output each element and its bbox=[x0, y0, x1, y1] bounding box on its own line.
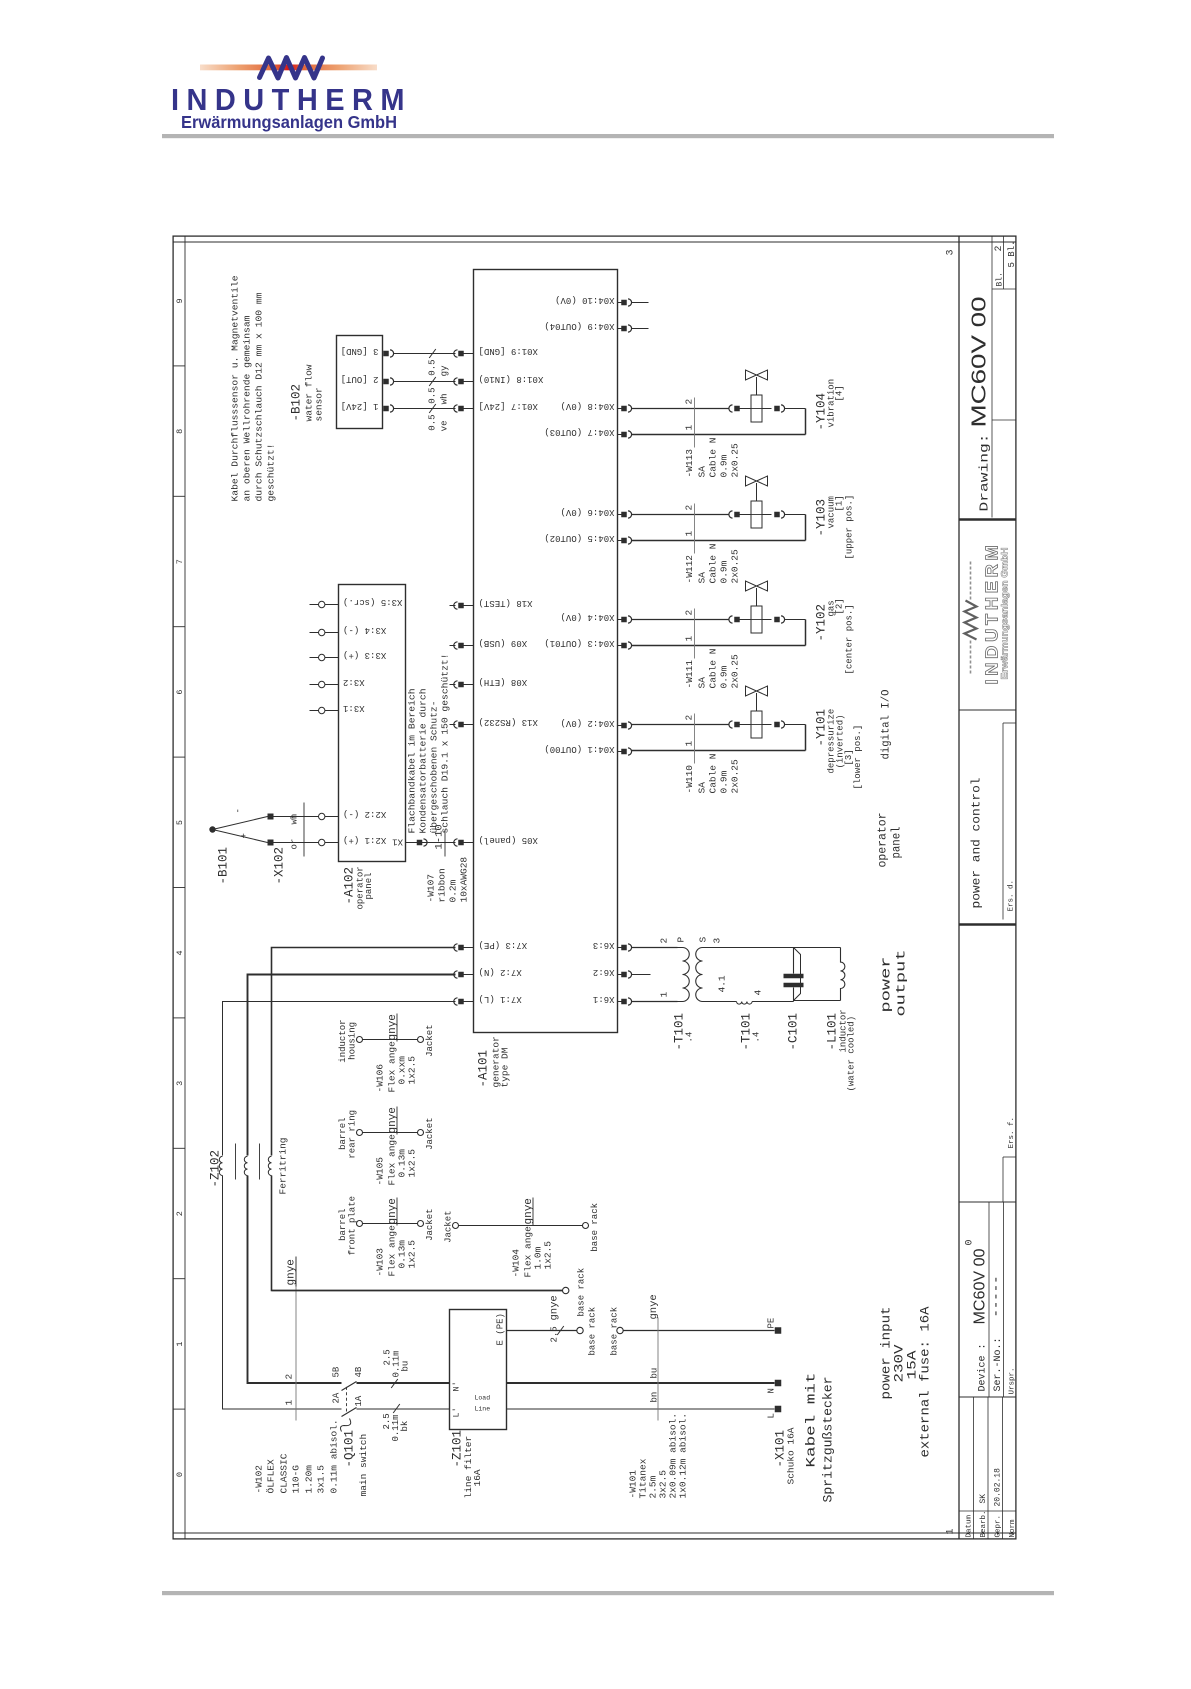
svg-text:-W112: -W112 bbox=[684, 555, 695, 584]
bottom gray rule bbox=[162, 1591, 1054, 1595]
svg-text:durch Schutzschlauch D12 mm x: durch Schutzschlauch D12 mm x 100 mm bbox=[254, 292, 265, 501]
svg-text:Ferritring: Ferritring bbox=[278, 1137, 289, 1194]
svg-text:barrel: barrel bbox=[338, 1208, 348, 1240]
wire X04 0V to valve -Y102 bbox=[632, 619, 729, 621]
drawing cell vertical 2 bbox=[992, 288, 1017, 290]
svg-text:Erwärmungsanlagen GmbH: Erwärmungsanlagen GmbH bbox=[1000, 548, 1010, 680]
svg-text:X04:7 (OUT03): X04:7 (OUT03) bbox=[544, 427, 614, 437]
main switch Q101 contact L bbox=[342, 1408, 357, 1417]
svg-text:+: + bbox=[240, 833, 250, 838]
plug X101 terminal L bbox=[775, 1406, 782, 1413]
svg-text:X04:10 (0V): X04:10 (0V) bbox=[555, 295, 614, 305]
A102 pin X3:4 (-) bbox=[310, 632, 319, 634]
A101 pin X6:1 bbox=[618, 1001, 622, 1003]
frame inner line left bbox=[173, 1532, 1017, 1534]
svg-text:X3:4 (-): X3:4 (-) bbox=[343, 625, 386, 635]
wire secondary right down bbox=[708, 947, 794, 949]
wire B102 to A101 at 1131 bbox=[394, 408, 456, 410]
solenoid coil -Y101 bbox=[751, 711, 762, 738]
A101 pin X04:4 (0V) bbox=[618, 619, 622, 621]
A101 pin X04:8 (0V) bbox=[618, 408, 622, 410]
svg-text:übergeschobenen Schutz-: übergeschobenen Schutz- bbox=[429, 701, 440, 834]
A102 pin X3:5 (scr.) bbox=[310, 604, 319, 606]
svg-text:[1]: [1] bbox=[835, 495, 845, 511]
svg-text:panel: panel bbox=[891, 826, 904, 858]
svg-text:0.5: 0.5 bbox=[428, 388, 438, 404]
svg-text:6: 6 bbox=[175, 690, 185, 695]
wire X6:3 down to T101 bbox=[632, 947, 678, 949]
A101 stub X04:10 bbox=[632, 302, 649, 304]
top gray rule bbox=[162, 134, 1054, 138]
svg-text:power: power bbox=[879, 957, 894, 1013]
svg-text:Jacket: Jacket bbox=[425, 1117, 435, 1149]
solenoid coil -Y103 bbox=[751, 501, 762, 528]
svg-text:-: - bbox=[234, 808, 244, 813]
capacitor C101 plates bbox=[784, 974, 804, 979]
frame inner line right bbox=[173, 241, 1017, 243]
svg-text:Ers. d.: Ers. d. bbox=[1008, 880, 1016, 912]
frame column ticks and numbers bbox=[173, 1408, 186, 1410]
title block table label column line bbox=[959, 1510, 1017, 1512]
svg-text:X6:2: X6:2 bbox=[593, 967, 615, 977]
svg-text:X04:4 (0V): X04:4 (0V) bbox=[560, 612, 614, 622]
svg-text:2: 2 bbox=[684, 610, 695, 616]
wire PE Z101 to base rack bbox=[507, 1330, 577, 1332]
bonding wire -W105 bbox=[357, 1130, 363, 1136]
svg-text:-Z102: -Z102 bbox=[209, 1150, 223, 1188]
svg-text:base rack: base rack bbox=[577, 1268, 587, 1317]
svg-text:base rack: base rack bbox=[610, 1307, 620, 1356]
svg-text:X7:2 (N): X7:2 (N) bbox=[479, 967, 522, 977]
svg-text:X3:2: X3:2 bbox=[343, 677, 365, 687]
svg-text:4B: 4B bbox=[354, 1366, 364, 1377]
svg-text:1: 1 bbox=[659, 992, 670, 998]
A101 X01 pin marker 1131 bbox=[454, 405, 458, 412]
svg-text:2: 2 bbox=[684, 505, 695, 511]
svg-text:0.9m: 0.9m bbox=[719, 770, 730, 793]
svg-text:Kondensatorbatterie durch: Kondensatorbatterie durch bbox=[418, 689, 429, 834]
device cell line 1 bbox=[988, 1202, 990, 1397]
title block divider C|B bbox=[959, 709, 1017, 711]
svg-text:Norm: Norm bbox=[1009, 1519, 1017, 1538]
svg-text:Bearb.: Bearb. bbox=[980, 1510, 988, 1537]
svg-text:0.11m abisol.: 0.11m abisol. bbox=[329, 1419, 340, 1493]
B102 pin marker at 1186 bbox=[383, 351, 389, 357]
svg-text:-A102: -A102 bbox=[343, 867, 357, 905]
bonding wire -W103 bbox=[357, 1221, 363, 1227]
svg-text:X04:5 (OUT02): X04:5 (OUT02) bbox=[544, 533, 614, 543]
svg-text:3: 3 bbox=[712, 938, 723, 944]
valve -Y103 coil top connector bbox=[729, 511, 733, 518]
svg-text:2x0.25: 2x0.25 bbox=[730, 443, 741, 478]
cable W102 crossing line bbox=[295, 1257, 297, 1421]
plug X101 terminal N bbox=[775, 1380, 782, 1387]
title block divider F|E bbox=[959, 1396, 1017, 1398]
svg-text:gnye: gnye bbox=[648, 1294, 660, 1319]
svg-text:1: 1 bbox=[684, 531, 695, 537]
cable line -W113 bbox=[694, 398, 696, 448]
svg-text:2: 2 bbox=[175, 1211, 185, 1216]
svg-text:wh: wh bbox=[440, 394, 450, 405]
svg-text:X05 (panel): X05 (panel) bbox=[479, 835, 538, 845]
cable line -W112 bbox=[694, 504, 696, 554]
svg-text:3x1.5: 3x1.5 bbox=[316, 1465, 327, 1494]
svg-text:2x0.25: 2x0.25 bbox=[730, 654, 741, 689]
svg-text:[upper pos.]: [upper pos.] bbox=[845, 495, 855, 560]
wire N from A101 X7:2 bbox=[248, 975, 456, 1156]
wire corner -Y101 bbox=[805, 725, 807, 751]
svg-text:2: 2 bbox=[284, 1374, 295, 1380]
svg-text:X6:1: X6:1 bbox=[593, 994, 615, 1004]
wire corner -Y104 bbox=[805, 409, 807, 435]
svg-text:ÖLFLEX: ÖLFLEX bbox=[266, 1459, 277, 1494]
A101 pin X04:7 (OUT03) bbox=[618, 434, 622, 436]
svg-text:1: 1 bbox=[946, 1528, 957, 1534]
svg-text:Ser.-No.:: Ser.-No.: bbox=[993, 1337, 1004, 1391]
valve body -Y101 bbox=[746, 686, 757, 696]
svg-text:-W102: -W102 bbox=[254, 1465, 265, 1494]
svg-text:-L101: -L101 bbox=[826, 1013, 840, 1051]
wire base rack to X101 PE bbox=[623, 1330, 774, 1332]
svg-text:1 [24V]: 1 [24V] bbox=[341, 401, 379, 411]
valve -Y101 coil bottom connector bbox=[762, 724, 772, 726]
svg-text:wh: wh bbox=[290, 814, 300, 825]
A101 pin X04:10 (0V) bbox=[618, 302, 622, 304]
svg-text:Drawing:: Drawing: bbox=[978, 434, 992, 512]
svg-text:2: 2 bbox=[994, 245, 1005, 251]
Ers.f. cell line bbox=[1002, 1157, 1004, 1202]
wire gauge slash 1131 bbox=[429, 404, 436, 413]
svg-text:gnye: gnye bbox=[549, 1295, 561, 1320]
A101 X01 pin marker 1158 bbox=[454, 378, 458, 385]
wire N Z101 to X101 bbox=[507, 1382, 775, 1384]
svg-text:0.9m: 0.9m bbox=[719, 665, 730, 688]
svg-text:8: 8 bbox=[175, 429, 185, 434]
svg-text:Ers. f.: Ers. f. bbox=[1008, 1117, 1016, 1149]
svg-text:-W104: -W104 bbox=[511, 1249, 522, 1278]
svg-text:2: 2 bbox=[684, 399, 695, 405]
cable W101 crossing line bbox=[657, 1318, 659, 1421]
wire L from A101 X7:1 bbox=[223, 1002, 456, 1156]
svg-text:-W105: -W105 bbox=[375, 1157, 386, 1186]
svg-text:main switch: main switch bbox=[358, 1434, 369, 1497]
A101 X01 pin marker 1186 bbox=[454, 350, 458, 357]
wire X04 0V to valve -Y104 bbox=[632, 408, 729, 410]
svg-text:2x0.25: 2x0.25 bbox=[730, 549, 741, 584]
svg-text:X04:1 (OUT00): X04:1 (OUT00) bbox=[544, 744, 614, 754]
svg-text:5 Bl.: 5 Bl. bbox=[1007, 240, 1017, 267]
A102 pin X2:2 (-) bbox=[310, 816, 319, 818]
ferrite Z102 squiggle on PE bbox=[268, 1156, 271, 1175]
valve -Y102 coil bottom connector bbox=[762, 619, 772, 621]
A101 pin X04:3 (OUT01) bbox=[618, 645, 622, 647]
wire L switch to Z101 bbox=[357, 1408, 450, 1410]
indutherm mini logo side bars bbox=[970, 641, 972, 674]
svg-text:Cable N: Cable N bbox=[708, 754, 719, 794]
svg-text:panel: panel bbox=[364, 872, 374, 899]
wire X6:1 down to T101 bbox=[632, 1001, 678, 1003]
drawing frame outer border bbox=[173, 236, 1016, 1539]
inductor L101 outline bbox=[794, 948, 801, 1001]
svg-text:base rack: base rack bbox=[588, 1307, 598, 1356]
valve stem -Y103 bbox=[756, 483, 758, 501]
valve -Y103 coil bottom connector bbox=[762, 514, 772, 516]
svg-text:Cable N: Cable N bbox=[708, 544, 719, 584]
svg-text:0.9m: 0.9m bbox=[719, 454, 730, 477]
svg-text:2 [OUT]: 2 [OUT] bbox=[341, 374, 379, 384]
frame inner line top strip bbox=[184, 236, 186, 1540]
svg-text:X1: X1 bbox=[392, 837, 403, 847]
svg-text:-Q101: -Q101 bbox=[343, 1430, 357, 1468]
title block top edge bbox=[958, 236, 960, 1540]
svg-text:Kabel mit: Kabel mit bbox=[804, 1373, 819, 1468]
svg-text:-B101: -B101 bbox=[217, 847, 231, 885]
bonding wire -W106 bbox=[357, 1037, 363, 1043]
svg-text:Gepr.: Gepr. bbox=[995, 1515, 1003, 1538]
svg-text:1: 1 bbox=[175, 1342, 185, 1347]
svg-text:Jacket: Jacket bbox=[444, 1210, 454, 1242]
svg-text:external fuse: 16A: external fuse: 16A bbox=[918, 1306, 933, 1457]
svg-text:0: 0 bbox=[175, 1472, 185, 1477]
device cell line 2 bbox=[1003, 1202, 1005, 1397]
svg-text:Datum: Datum bbox=[966, 1514, 974, 1537]
svg-text:1: 1 bbox=[684, 741, 695, 747]
indutherm mini logo zigzag bbox=[965, 601, 977, 640]
svg-text:bn: bn bbox=[650, 1392, 660, 1403]
svg-text:3: 3 bbox=[946, 249, 957, 255]
plug X101 terminal PE bbox=[775, 1327, 782, 1334]
svg-text:X7:1 (L): X7:1 (L) bbox=[479, 994, 522, 1004]
svg-text:Load: Load bbox=[475, 1395, 491, 1402]
svg-text:(water cooled): (water cooled) bbox=[847, 1016, 857, 1092]
title block table row lines bbox=[973, 1397, 975, 1540]
wire PE from A101 X7:3 bbox=[272, 948, 456, 1156]
svg-text:-W113: -W113 bbox=[684, 449, 695, 478]
svg-text:1.20m: 1.20m bbox=[304, 1465, 315, 1494]
svg-text:0.5: 0.5 bbox=[428, 415, 438, 431]
ribbon wire A102 X1 to A101 X05 bbox=[406, 842, 456, 844]
svg-text:1-10: 1-10 bbox=[434, 824, 446, 849]
svg-text:SA: SA bbox=[697, 572, 708, 584]
svg-text:X7:3 (PE): X7:3 (PE) bbox=[479, 940, 528, 950]
svg-text:bu: bu bbox=[401, 1361, 411, 1372]
PE gauge slash bbox=[557, 1326, 564, 1335]
valve stem -Y102 bbox=[756, 588, 758, 606]
ferrite Z102 bars bbox=[235, 1144, 237, 1180]
svg-text:X01:8 (IN10): X01:8 (IN10) bbox=[479, 374, 544, 384]
svg-text:1: 1 bbox=[284, 1400, 295, 1406]
svg-text:X2:2 (-): X2:2 (-) bbox=[343, 809, 386, 819]
svg-text:1: 1 bbox=[684, 425, 695, 431]
svg-text:X04:2 (0V): X04:2 (0V) bbox=[560, 718, 614, 728]
svg-text:X2:1 (+): X2:1 (+) bbox=[343, 835, 386, 845]
drawing cell Bl line bbox=[1003, 236, 1005, 290]
transformer T101 secondary winding bbox=[696, 948, 710, 1002]
svg-text:1x2.5: 1x2.5 bbox=[407, 1240, 418, 1269]
svg-text:power and control: power and control bbox=[970, 778, 984, 909]
A101 pin X7:1 (L) bbox=[454, 998, 458, 1005]
svg-text:0: 0 bbox=[965, 1239, 976, 1245]
A102 pin X3:2 bbox=[310, 684, 319, 686]
inductor L101 winding bbox=[841, 948, 845, 1001]
A101 pin X09 (USB) bbox=[450, 645, 456, 647]
main switch Q101 mech link bbox=[346, 1387, 348, 1412]
svg-text:9: 9 bbox=[175, 298, 185, 303]
svg-text:inductor: inductor bbox=[338, 1019, 348, 1062]
svg-text:L: L bbox=[767, 1413, 777, 1418]
wire B102 to A101 at 1158 bbox=[394, 381, 456, 383]
valve -Y101 coil top connector bbox=[729, 721, 733, 728]
svg-text:[4]: [4] bbox=[835, 385, 845, 401]
svg-text:SA: SA bbox=[697, 782, 708, 794]
svg-text:housing: housing bbox=[348, 1022, 358, 1060]
cable line -W111 bbox=[694, 609, 696, 659]
wire X04 OUT to valve -Y102 bbox=[632, 645, 806, 647]
svg-text:E (PE): E (PE) bbox=[496, 1313, 506, 1345]
svg-text:Jacket: Jacket bbox=[425, 1024, 435, 1056]
generator A101 box bbox=[474, 270, 618, 1033]
title block divider B|A thick bbox=[959, 518, 1017, 521]
svg-text:Kabel Durchflusssensor u. Magn: Kabel Durchflusssensor u. Magnetventile bbox=[230, 275, 241, 501]
wire X04 0V to valve -Y103 bbox=[632, 514, 729, 516]
svg-text:CLASSIC: CLASSIC bbox=[279, 1453, 290, 1493]
svg-text:N': N' bbox=[452, 1381, 462, 1391]
svg-text:Cable N: Cable N bbox=[708, 649, 719, 689]
wire corner -Y103 bbox=[805, 515, 807, 541]
svg-text:Schuko 16A: Schuko 16A bbox=[786, 1427, 797, 1484]
svg-text:[lower pos.]: [lower pos.] bbox=[853, 725, 863, 790]
A101 pin X7:3 (PE) bbox=[454, 944, 458, 951]
indutherm logo zigzag bbox=[260, 58, 323, 79]
valve body -Y103 bbox=[746, 476, 757, 486]
base rack circle 1 bbox=[577, 1327, 583, 1333]
main switch Q101 contact N bbox=[342, 1382, 357, 1391]
svg-text:X6:3: X6:3 bbox=[593, 940, 615, 950]
B102 pin marker at 1158 bbox=[383, 379, 389, 385]
svg-text:10xAWG28: 10xAWG28 bbox=[459, 857, 470, 903]
svg-text:X18 (TEST): X18 (TEST) bbox=[479, 598, 533, 608]
A101 stub X04:9 bbox=[632, 328, 649, 330]
svg-text:2.5: 2.5 bbox=[550, 1326, 560, 1342]
svg-text:Device :: Device : bbox=[977, 1343, 989, 1391]
svg-text:1x0.12m abisol.: 1x0.12m abisol. bbox=[678, 1413, 689, 1499]
A101 pin X08 (ETH) bbox=[450, 684, 456, 686]
svg-text:1x2.5: 1x2.5 bbox=[407, 1056, 418, 1085]
A101 pin X6:2 bbox=[618, 974, 622, 976]
A101 pin X04:6 (0V) bbox=[618, 514, 622, 516]
A101 stub X6:2 bbox=[632, 974, 651, 976]
svg-text:schlauch D19.1 x 150 geschützt: schlauch D19.1 x 150 geschützt! bbox=[440, 654, 451, 834]
sensor B102 box bbox=[337, 336, 383, 429]
svg-text:Flachbandkabel im Bereich: Flachbandkabel im Bereich bbox=[407, 689, 418, 834]
svg-text:P: P bbox=[676, 937, 687, 943]
svg-text:1x2.5: 1x2.5 bbox=[407, 1149, 418, 1178]
A101 pin X04:5 (OUT02) bbox=[618, 540, 622, 542]
A102 pin X3:1 bbox=[310, 710, 319, 712]
drawing cell split line bbox=[991, 236, 993, 518]
svg-text:1x2.5: 1x2.5 bbox=[543, 1241, 554, 1270]
svg-text:0.9m: 0.9m bbox=[719, 560, 730, 583]
svg-text:-W107: -W107 bbox=[426, 874, 437, 903]
svg-text:7: 7 bbox=[175, 559, 185, 564]
wire X04 OUT to valve -Y101 bbox=[632, 750, 806, 752]
cable line -W110 bbox=[694, 714, 696, 764]
thermocouple B101 junction bbox=[209, 826, 215, 832]
svg-text:an oberen Wellrohrende gemeins: an oberen Wellrohrende gemeinsam bbox=[242, 315, 253, 501]
svg-text:0.5: 0.5 bbox=[428, 360, 438, 376]
svg-text:2: 2 bbox=[659, 938, 670, 944]
wire gauge slash 1158 bbox=[429, 377, 436, 386]
valve body -Y104 bbox=[746, 370, 757, 380]
ferrite Z102 squiggle on L bbox=[219, 1156, 222, 1175]
drawing cell vertical 1 bbox=[992, 419, 1017, 421]
A101 pin X13 (RS232) bbox=[450, 724, 456, 726]
svg-text:INDUTHERM: INDUTHERM bbox=[982, 542, 1002, 685]
valve stem -Y104 bbox=[756, 377, 758, 395]
line filter Z101 box bbox=[450, 1310, 507, 1430]
svg-text:rear ring: rear ring bbox=[348, 1110, 358, 1159]
svg-text:3: 3 bbox=[175, 1081, 185, 1086]
svg-text:output: output bbox=[894, 950, 909, 1017]
svg-text:16A: 16A bbox=[472, 1469, 483, 1486]
valve -Y104 coil bottom connector bbox=[762, 408, 772, 410]
svg-text:-B102: -B102 bbox=[290, 384, 304, 422]
svg-text:-C101: -C101 bbox=[787, 1013, 801, 1051]
svg-text:X04:3 (OUT01): X04:3 (OUT01) bbox=[544, 638, 614, 648]
svg-text:gy: gy bbox=[440, 365, 450, 376]
valve body -Y102 bbox=[746, 581, 757, 591]
svg-text:X3:3 (+): X3:3 (+) bbox=[343, 650, 386, 660]
svg-text:4: 4 bbox=[753, 990, 764, 996]
svg-text:SA: SA bbox=[697, 466, 708, 478]
bonding wire PE to base rack bbox=[272, 1290, 563, 1292]
svg-text:X08 (ETH): X08 (ETH) bbox=[479, 677, 528, 687]
svg-text:Jacket: Jacket bbox=[425, 1208, 435, 1240]
svg-text:X3:5 (scr.): X3:5 (scr.) bbox=[343, 597, 402, 607]
svg-text:5: 5 bbox=[175, 820, 185, 825]
svg-text:-W103: -W103 bbox=[375, 1248, 386, 1277]
svg-text:Erwärmungsanlagen GmbH: Erwärmungsanlagen GmbH bbox=[181, 112, 397, 132]
svg-text:ribbon: ribbon bbox=[437, 868, 448, 902]
svg-text:X04:6 (0V): X04:6 (0V) bbox=[560, 507, 614, 517]
capacitor C101 branch wire bbox=[793, 948, 795, 974]
title block divider D|C thick bbox=[959, 923, 1017, 926]
svg-text:4: 4 bbox=[175, 950, 185, 955]
svg-text:operator: operator bbox=[877, 813, 890, 868]
wires X102 to A102 bbox=[274, 842, 319, 844]
svg-text:2: 2 bbox=[684, 715, 695, 721]
svg-text:SA: SA bbox=[697, 677, 708, 689]
svg-text:-X102: -X102 bbox=[273, 847, 287, 885]
svg-text:geschützt!: geschützt! bbox=[266, 444, 277, 502]
A101 pin X04:2 (0V) bbox=[618, 725, 622, 727]
svg-text:X01:9 [GND]: X01:9 [GND] bbox=[479, 346, 538, 356]
svg-text:X04:9 (OUT04): X04:9 (OUT04) bbox=[544, 321, 614, 331]
wire corner -Y102 bbox=[805, 620, 807, 646]
ferrite Z102 squiggle on N bbox=[244, 1156, 247, 1175]
wire L gauge slash bbox=[393, 1404, 400, 1413]
svg-text:SK: SK bbox=[979, 1494, 988, 1504]
A102 pin X3:3 (+) bbox=[310, 657, 319, 659]
svg-text:line filter: line filter bbox=[463, 1436, 474, 1499]
svg-text:MC60V 00: MC60V 00 bbox=[969, 297, 991, 428]
svg-text:2x0.25: 2x0.25 bbox=[730, 759, 741, 794]
svg-text:S: S bbox=[698, 937, 709, 943]
wire N switch to Z101 bbox=[357, 1382, 450, 1384]
svg-text:-W106: -W106 bbox=[375, 1064, 386, 1093]
svg-text:or: or bbox=[290, 839, 300, 850]
wire X04 OUT to valve -Y103 bbox=[632, 540, 806, 542]
